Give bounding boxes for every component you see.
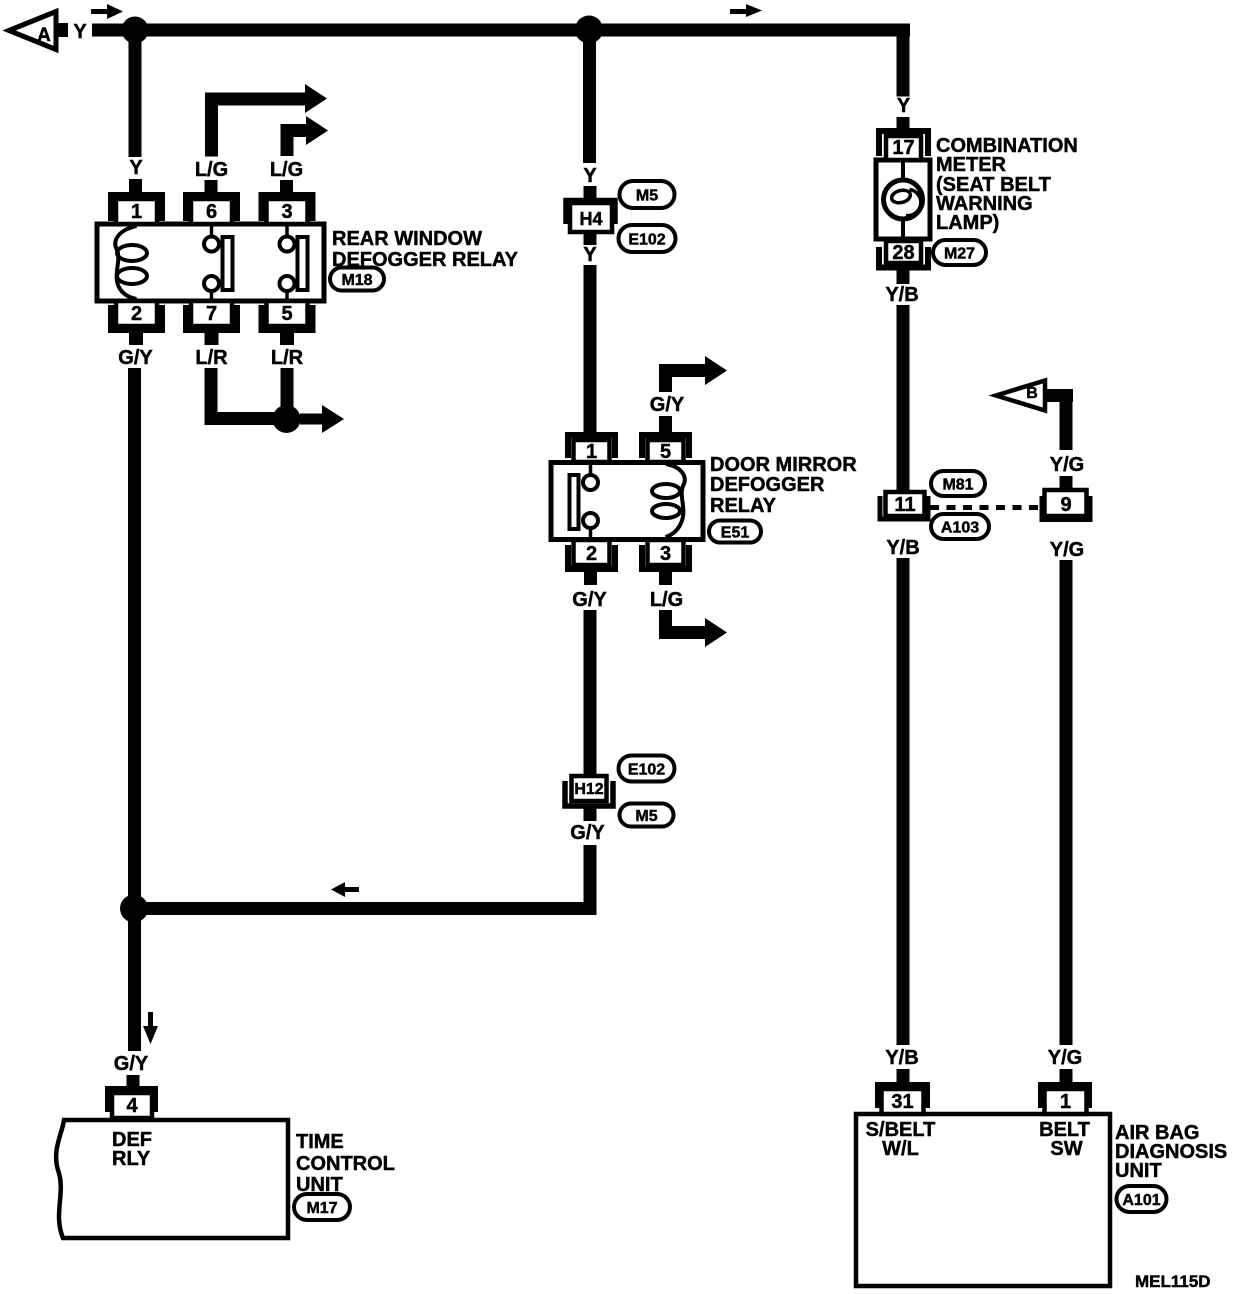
label REAR WINDOW DEFOGGER RELAY xyxy=(332,228,519,271)
wire arrow from relay M18 pin 6 (L/G off-page) xyxy=(205,84,327,157)
svg-text:MEL115D: MEL115D xyxy=(1135,1272,1211,1291)
wire stub into connector 17 xyxy=(897,117,910,131)
svg-text:G/Y: G/Y xyxy=(570,822,605,844)
wire stub from pin 5 xyxy=(280,332,294,345)
svg-text:Y/B: Y/B xyxy=(885,284,918,306)
air bag unit pin 1 connector xyxy=(1041,1085,1089,1114)
svg-text:LAMP): LAMP) xyxy=(936,212,999,234)
svg-text:Y: Y xyxy=(897,95,911,117)
svg-text:Y/G: Y/G xyxy=(1050,539,1084,561)
wire Y corner from top bus down to combination meter xyxy=(897,24,910,97)
meter pin 28 connector xyxy=(879,241,928,268)
wire stub from pin 2 xyxy=(129,332,143,345)
svg-text:9: 9 xyxy=(1060,494,1071,516)
svg-text:SW: SW xyxy=(1050,1138,1082,1160)
wire stub into pin 1 xyxy=(129,179,142,195)
svg-text:2: 2 xyxy=(131,303,142,325)
wire Y vertical to relay M18 pin 1 xyxy=(129,30,142,157)
svg-text:M17: M17 xyxy=(306,1200,337,1217)
svg-text:REAR WINDOW: REAR WINDOW xyxy=(332,228,482,250)
wire stub below H4 xyxy=(584,232,597,245)
svg-text:B: B xyxy=(1026,385,1038,402)
time control unit M17 box xyxy=(56,1120,288,1238)
relay M18 pin 5 connector xyxy=(262,301,313,330)
wire G/Y vertical from pin 2 to H12 xyxy=(584,610,597,776)
relay M18 pin 6 connector xyxy=(186,195,237,224)
wire arrow G/Y off-page (above relay E51 pin 5) xyxy=(659,356,727,392)
wire stub into pin 6 xyxy=(205,180,218,195)
svg-text:2: 2 xyxy=(586,543,597,565)
svg-text:DEFOGGER: DEFOGGER xyxy=(710,474,825,496)
connector ref oval M5 (top) xyxy=(620,181,675,208)
svg-text:A101: A101 xyxy=(1122,1192,1160,1209)
svg-text:6: 6 xyxy=(206,201,217,223)
wire stub from pin 3 xyxy=(659,571,672,585)
relay M18 contact (pins 3-5) xyxy=(280,224,308,301)
wire stub into H4 xyxy=(584,186,597,200)
connector ref oval M18 xyxy=(330,268,384,291)
relay M18 coil xyxy=(115,226,147,299)
label AIR BAG DIAGNOSIS UNIT xyxy=(1115,1122,1227,1182)
svg-text:RLY: RLY xyxy=(112,1148,151,1170)
junction dot (G/Y node) xyxy=(120,895,148,923)
connector ref oval E102 (top) xyxy=(619,225,676,252)
wire stub into pin 3 xyxy=(280,180,293,195)
svg-text:E51: E51 xyxy=(721,525,750,542)
svg-text:E102: E102 xyxy=(628,232,665,249)
svg-text:Y/G: Y/G xyxy=(1050,454,1084,476)
svg-text:M5: M5 xyxy=(635,808,657,825)
svg-text:UNIT: UNIT xyxy=(1115,1160,1162,1182)
svg-text:Y: Y xyxy=(583,165,597,187)
svg-text:28: 28 xyxy=(892,242,914,264)
junction dot (L/R node) xyxy=(273,405,301,433)
connector ref oval E102 (bottom) xyxy=(619,756,675,782)
dashed link between connector 11 and connector 9 xyxy=(930,505,1040,510)
wire Y vertical from H4 to relay E51 pin 1 xyxy=(584,265,597,435)
wire stub from pin 2 xyxy=(584,571,597,585)
svg-text:L/G: L/G xyxy=(195,159,228,181)
wire L/R vertical from pin 5 xyxy=(281,368,294,419)
svg-text:3: 3 xyxy=(281,201,292,223)
svg-text:CONTROL: CONTROL xyxy=(296,1153,395,1175)
svg-text:M27: M27 xyxy=(944,246,975,263)
svg-text:DOOR MIRROR: DOOR MIRROR xyxy=(710,454,857,476)
connector ref oval E51 xyxy=(709,521,761,543)
connector arrow A (to other page) xyxy=(9,12,68,50)
connector ref oval M81 xyxy=(931,471,985,496)
connector ref oval A103 xyxy=(931,514,989,539)
svg-text:M81: M81 xyxy=(942,477,973,494)
flow arrow (small, left-pointing on horizontal wire) xyxy=(331,882,359,897)
connector arrow B (from other page) xyxy=(996,381,1045,411)
wire stub below H12 xyxy=(584,806,597,821)
svg-text:L/R: L/R xyxy=(195,347,228,369)
svg-text:E102: E102 xyxy=(628,762,665,779)
rear window defogger relay M18 body xyxy=(97,224,324,301)
flow arrow (small, down-pointing) xyxy=(143,1012,158,1044)
relay M18 contact (pins 6-7) xyxy=(204,224,233,301)
junction dot (top left, node to relay M18 pin 1) xyxy=(122,17,149,44)
svg-text:L/R: L/R xyxy=(271,347,304,369)
wire stub into pin 1 xyxy=(1060,1069,1073,1084)
svg-text:L/G: L/G xyxy=(270,159,303,181)
lamp symbol (seat belt warning lamp) xyxy=(884,180,923,219)
svg-text:Y: Y xyxy=(129,157,143,179)
connector ref oval M17 xyxy=(294,1194,350,1220)
label DOOR MIRROR DEFOGGER RELAY xyxy=(710,454,857,517)
relay M18 pin 2 connector xyxy=(111,301,162,330)
wire stub into connector 9 xyxy=(1060,476,1073,491)
label TIME CONTROL UNIT xyxy=(296,1131,395,1196)
svg-text:G/Y: G/Y xyxy=(114,1053,149,1075)
wire Y/B vertical (pin 28 to connector 11) xyxy=(897,305,910,490)
svg-text:Y: Y xyxy=(73,21,87,43)
connector 9 (A103 side) xyxy=(1042,490,1090,520)
connector H4 xyxy=(566,201,615,233)
svg-text:31: 31 xyxy=(891,1091,913,1113)
time control unit pin 4 connector xyxy=(108,1089,155,1118)
svg-text:5: 5 xyxy=(281,303,292,325)
svg-text:Y/B: Y/B xyxy=(885,1047,918,1069)
wire G/Y horizontal to left junction xyxy=(127,902,596,915)
connector 11 (M81-A103 joint) xyxy=(880,492,928,519)
svg-text:1: 1 xyxy=(1060,1091,1071,1113)
wire stub from pin 7 xyxy=(205,332,219,345)
svg-text:M18: M18 xyxy=(341,272,372,289)
flow arrow (small, top middle) xyxy=(730,4,762,17)
wire Y/B vertical (connector 11 to air bag unit) xyxy=(897,558,910,1045)
wire stub below pin 28 xyxy=(897,270,910,284)
relay E51 coil (pins 5-3) xyxy=(652,464,685,537)
wire Y/G vertical (connector 9 to air bag unit) xyxy=(1060,560,1073,1045)
wire arrow L/G off-page (below pin 3) xyxy=(659,610,727,647)
wire Y vertical from junction to H4 xyxy=(583,29,596,163)
svg-text:H12: H12 xyxy=(574,781,603,798)
svg-text:1: 1 xyxy=(131,201,142,223)
svg-text:G/Y: G/Y xyxy=(572,589,607,611)
svg-text:W/L: W/L xyxy=(882,1138,919,1160)
door mirror defogger relay E51 body xyxy=(551,463,703,540)
connector ref oval M27 xyxy=(933,240,986,265)
wire top bus horizontal xyxy=(92,24,910,37)
wire from arrow B elbow down xyxy=(1045,389,1073,450)
relay E51 contact (pins 1-2) xyxy=(570,462,599,539)
junction dot (top middle, node to H4) xyxy=(575,16,603,44)
svg-text:17: 17 xyxy=(892,137,914,159)
wire stub into pin 4 xyxy=(127,1075,140,1089)
svg-text:Y/G: Y/G xyxy=(1048,1047,1082,1069)
wire arrow from relay M18 pin 3 (L/G off-page) xyxy=(281,116,329,156)
relay E51 pin 1 connector xyxy=(568,435,615,463)
connector ref oval A101 xyxy=(1117,1186,1167,1212)
wire G/Y vertical down to corner xyxy=(584,845,597,915)
svg-text:H4: H4 xyxy=(579,209,602,229)
svg-text:G/Y: G/Y xyxy=(118,347,153,369)
label COMBINATION METER (SEAT BELT WARNING LAMP) xyxy=(936,135,1078,234)
wire arrow L/R off-page xyxy=(300,405,344,433)
wire G/Y left vertical (pin 2 M18 down to time control unit) xyxy=(128,368,141,1051)
svg-text:Y: Y xyxy=(583,244,597,266)
svg-text:3: 3 xyxy=(660,543,671,565)
meter pin 17 connector xyxy=(879,131,928,160)
combination meter body (seat belt warning lamp) xyxy=(876,160,930,239)
svg-text:L/G: L/G xyxy=(650,589,683,611)
svg-text:4: 4 xyxy=(126,1095,138,1117)
svg-text:TIME: TIME xyxy=(296,1131,344,1153)
connector H12 xyxy=(565,776,613,806)
svg-text:M5: M5 xyxy=(636,188,658,205)
wire L/R elbow from pin 7 xyxy=(205,368,288,425)
svg-text:1: 1 xyxy=(586,441,597,463)
relay M18 pin 7 connector xyxy=(186,301,237,330)
svg-text:A103: A103 xyxy=(941,520,979,537)
svg-text:RELAY: RELAY xyxy=(710,495,777,517)
relay E51 pin 2 connector xyxy=(568,540,615,569)
svg-text:G/Y: G/Y xyxy=(650,394,685,416)
wire stub into pin 31 xyxy=(897,1069,910,1084)
air bag unit pin 31 connector xyxy=(878,1085,927,1114)
relay E51 pin 3 connector xyxy=(642,540,689,569)
relay M18 pin 1 connector xyxy=(111,195,162,224)
connector ref oval M5 (bottom) xyxy=(620,804,674,827)
svg-text:11: 11 xyxy=(894,494,915,516)
wire stub into pin 5 xyxy=(659,416,672,433)
flow arrow (small, top left) xyxy=(91,4,123,19)
svg-text:METER: METER xyxy=(936,154,1007,176)
svg-text:7: 7 xyxy=(206,303,217,325)
relay E51 pin 5 connector xyxy=(642,435,689,463)
svg-text:5: 5 xyxy=(660,441,671,463)
relay M18 pin 3 connector xyxy=(262,195,313,224)
svg-text:Y/B: Y/B xyxy=(886,537,919,559)
svg-text:A: A xyxy=(37,25,51,46)
air bag diagnosis unit box xyxy=(856,1114,1110,1286)
